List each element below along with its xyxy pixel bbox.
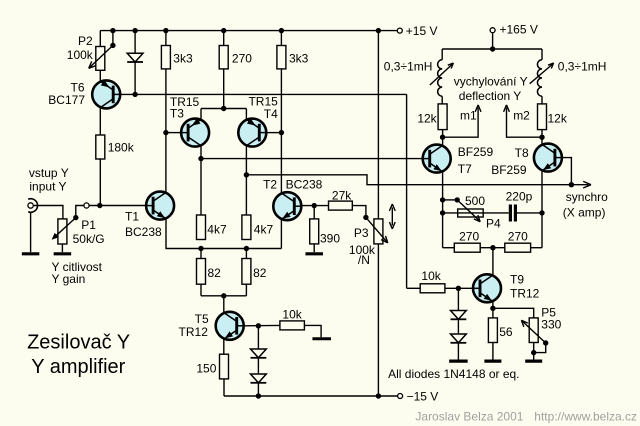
node emitters-270 (221, 106, 226, 111)
node P3 wiper (363, 215, 368, 220)
node rail-R3k3a (163, 28, 168, 33)
svg-text:56: 56 (499, 325, 513, 339)
svg-text:(X amp): (X amp) (563, 206, 606, 220)
svg-text:http://www.belza.cz: http://www.belza.cz (534, 409, 637, 423)
svg-text:TR12: TR12 (179, 325, 209, 339)
terminal -15V (398, 394, 403, 399)
svg-text:Y gain: Y gain (52, 272, 86, 286)
node T3 base (163, 130, 168, 135)
svg-text:BF259: BF259 (491, 163, 527, 177)
transistor T7 BF259 (423, 145, 451, 173)
wire T8 base (562, 158, 572, 185)
node T9em-P5 (490, 306, 495, 311)
node 180k-T1base (97, 203, 102, 208)
svg-text:Y amplifier: Y amplifier (31, 356, 125, 378)
svg-text:P4: P4 (486, 216, 501, 230)
resistor 4k7 a (197, 215, 206, 240)
svg-text:150: 150 (196, 361, 216, 375)
ground 10k (312, 337, 331, 340)
node 82s-T5 (221, 293, 226, 298)
wire P4 row (443, 212, 509, 214)
resistor 270 a (223, 31, 225, 46)
capacitor 220p (509, 205, 512, 222)
wire diodes D4 D5 (457, 288, 459, 310)
svg-text:BC238: BC238 (286, 178, 323, 192)
svg-text:390: 390 (320, 232, 340, 246)
svg-text:Jaroslav Belza 2001: Jaroslav Belza 2001 (415, 409, 523, 423)
svg-text:0,3÷1mH: 0,3÷1mH (384, 60, 433, 74)
wire input to P1 (34, 206, 63, 219)
svg-text:12k: 12k (548, 111, 568, 125)
svg-text:0,3÷1mH: 0,3÷1mH (558, 60, 607, 74)
diode D1 (134, 31, 136, 54)
wire T3-T4 emitters (201, 108, 246, 110)
node rail-P2wiper (110, 28, 115, 33)
wire 27k to P3 wiper (352, 206, 366, 218)
diode D3 (251, 374, 267, 383)
svg-text:deflection Y: deflection Y (459, 89, 522, 103)
potentiometer P5 330 (493, 308, 534, 318)
svg-text:T2: T2 (263, 178, 277, 192)
ground P5 (525, 360, 542, 363)
node P5 bottom (531, 350, 536, 355)
wire T3 collector to T7 base (201, 158, 423, 160)
svg-text:P2: P2 (78, 34, 93, 48)
resistor 27k (329, 201, 353, 210)
resistor 3k3 a (165, 31, 167, 46)
svg-text:input Y: input Y (29, 180, 66, 194)
node em-4k7b (244, 246, 249, 251)
svg-text:T1: T1 (125, 210, 139, 224)
wire feedback vertical (406, 94, 408, 288)
resistor 270 b (443, 247, 455, 249)
transistor T3 TR15 (181, 118, 209, 146)
resistor 12k a (438, 104, 447, 130)
svg-text:T9: T9 (510, 272, 524, 286)
wire P1 wiper to T1 base (76, 206, 84, 218)
svg-text:220p: 220p (506, 190, 533, 204)
potentiometer P3 100k/N (377, 31, 379, 219)
svg-text:270: 270 (508, 230, 528, 244)
resistor 10k a (280, 321, 305, 330)
wire +165V (492, 33, 494, 49)
node 270s-T9 (490, 245, 495, 250)
svg-text:All diodes 1N4148 or eq.: All diodes 1N4148 or eq. (388, 367, 519, 381)
svg-text:P3: P3 (354, 226, 369, 240)
node T3coll-T7base (198, 156, 203, 161)
resistor 270 c (480, 247, 505, 249)
node em-4k7a (198, 246, 203, 251)
node T2 base (312, 203, 317, 208)
svg-text:270: 270 (459, 230, 479, 244)
svg-text:82: 82 (253, 266, 267, 280)
potentiometer P1 50k/G (58, 219, 67, 244)
transistor T4 TR15 (238, 118, 266, 146)
node T8em-cap (539, 210, 544, 215)
svg-text:T7: T7 (458, 162, 472, 176)
node D1-T6base (132, 92, 137, 97)
svg-text:T5: T5 (195, 312, 209, 326)
svg-text:Zesilovač Y: Zesilovač Y (27, 331, 130, 353)
wire 10k to ground (304, 325, 321, 337)
svg-text:330: 330 (541, 318, 561, 332)
wire synchro (246, 175, 588, 185)
node 12ka-m1 (440, 135, 445, 140)
transistor T1 BC238 (146, 192, 174, 220)
svg-text:BC177: BC177 (48, 93, 85, 107)
wire T8 emitter (541, 171, 543, 248)
svg-text:27k: 27k (332, 189, 352, 203)
node T7em-P4 (440, 197, 445, 202)
svg-text:−15 V: −15 V (407, 390, 439, 404)
wire -15V bottom rail (224, 395, 397, 397)
svg-text:3k3: 3k3 (289, 52, 309, 66)
terminal +15V (397, 28, 402, 33)
svg-text:BC238: BC238 (125, 225, 162, 239)
transistor T5 TR12 (216, 312, 244, 340)
ground diodes (449, 360, 468, 363)
wire T5 base to diodes (257, 326, 259, 349)
node 165rail (490, 46, 495, 51)
adjust arrow (391, 208, 393, 226)
svg-text:4k7: 4k7 (207, 223, 227, 237)
svg-text:vstup Y: vstup Y (29, 166, 69, 180)
resistor 12k b (538, 104, 547, 130)
svg-text:m2: m2 (513, 109, 530, 123)
wire T5 emitter (223, 339, 225, 354)
deflection arrow m2 (507, 108, 543, 138)
diode D4 (451, 311, 467, 320)
node T4coll-synchro (244, 172, 249, 177)
wire T4 collector (245, 146, 247, 215)
inductor L1 0,3-1mH (441, 49, 443, 60)
node rail-D1 (132, 28, 137, 33)
svg-text:T8: T8 (515, 146, 529, 160)
svg-text:50k/G: 50k/G (73, 232, 105, 246)
terminal +165V (490, 28, 495, 33)
wire T3 collector (200, 146, 202, 215)
transistor T6 BC177 (99, 70, 101, 81)
node 12kb-m2 (539, 135, 544, 140)
svg-text:BF259: BF259 (458, 145, 494, 159)
svg-text:100k: 100k (67, 48, 94, 62)
ground P1 (54, 252, 72, 255)
node T9base-diodes (456, 286, 461, 291)
potentiometer P2 100k (99, 31, 101, 47)
wire T5 collector (223, 296, 225, 313)
svg-text:82: 82 (208, 266, 222, 280)
wire T1 emitter (166, 219, 281, 249)
svg-text:10k: 10k (282, 307, 302, 321)
wire +15V top rail (100, 30, 397, 32)
input jack Y (28, 203, 33, 208)
resistor 3k3 b (280, 31, 282, 46)
node T7em-cap (440, 210, 445, 215)
deflection arrow m1 (443, 108, 479, 138)
wire T6 collector to 180k (99, 108, 101, 135)
inductor L2 0,3-1mH (541, 49, 543, 60)
svg-text:P1: P1 (81, 218, 96, 232)
resistor 180k (96, 135, 105, 159)
resistor 82 b (245, 249, 247, 259)
node T5 base (256, 323, 261, 328)
svg-text:12k: 12k (417, 111, 437, 125)
svg-text:3k3: 3k3 (173, 52, 193, 66)
svg-text:+165 V: +165 V (500, 23, 538, 37)
svg-text:180k: 180k (108, 140, 135, 154)
wire T7 emitter (442, 172, 444, 248)
transistor T9 TR12 (473, 274, 501, 302)
node T8base-synchro (569, 182, 574, 187)
wire 82 bottoms (201, 295, 246, 297)
potentiometer P4 500 (443, 199, 458, 201)
transistor T8 BF259 (534, 144, 562, 172)
svg-text:4k7: 4k7 (254, 223, 274, 237)
resistor 82 a (200, 249, 202, 259)
transistor T2 BC238 (273, 192, 301, 220)
svg-text:T4: T4 (264, 107, 278, 121)
resistor 10k b (420, 284, 445, 293)
wire T6 base / feedback line (120, 93, 406, 95)
diode D2 (251, 349, 267, 358)
wire T9 collector (492, 248, 494, 276)
node rail-P3 (376, 393, 381, 398)
node rail-diodes (256, 393, 261, 398)
svg-text:270: 270 (232, 52, 252, 66)
svg-text:T3: T3 (170, 106, 184, 120)
svg-text:500: 500 (465, 194, 485, 208)
node rail-R270 (221, 28, 226, 33)
resistor 390 (313, 206, 315, 219)
svg-text:+15 V: +15 V (406, 24, 438, 38)
svg-text:TR12: TR12 (510, 287, 540, 301)
node T4 base (279, 130, 284, 135)
resistor 4k7 b (242, 215, 251, 240)
ground 390 (305, 252, 323, 255)
svg-text:10k: 10k (421, 269, 441, 283)
node rail-P3 (376, 28, 381, 33)
ground jack (22, 252, 39, 255)
node rail-R3k3b (279, 28, 284, 33)
svg-text:m1: m1 (460, 109, 477, 123)
svg-text:vychylování Y: vychylování Y (454, 75, 528, 89)
ground 56 (484, 360, 501, 363)
svg-text:synchro: synchro (566, 190, 608, 204)
svg-text:/N: /N (358, 253, 370, 267)
resistor 56 (488, 318, 497, 343)
wire T9 emitter (492, 302, 494, 318)
resistor 150 (220, 354, 229, 379)
wire T2 emitter (280, 219, 282, 248)
diode D5 (451, 334, 467, 343)
